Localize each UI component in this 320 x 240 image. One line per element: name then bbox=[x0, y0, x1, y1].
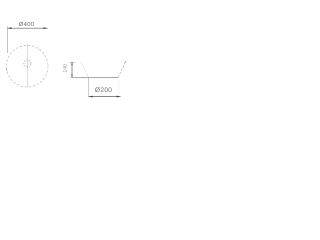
base dimension line bbox=[89, 96, 121, 98]
height dimension line bbox=[71, 62, 73, 77]
side-view right flare wall bbox=[118, 62, 126, 77]
height dimension top tick bbox=[70, 62, 75, 64]
top-view basin rim circle bbox=[6, 45, 48, 87]
right flare top serif bbox=[125, 61, 127, 62]
top-view drain circle bbox=[24, 60, 31, 67]
svg-text:Ø200: Ø200 bbox=[95, 87, 112, 94]
height dimension bottom arrow bbox=[71, 75, 73, 78]
svg-text:140: 140 bbox=[63, 64, 69, 72]
diameter dimension right arrow bbox=[44, 27, 48, 29]
svg-text:Ø400: Ø400 bbox=[19, 21, 35, 28]
base dimension left arrow bbox=[89, 96, 93, 98]
top-view circle left-edge dash bbox=[5, 68, 8, 72]
base dimension extension line (right, faint) bbox=[118, 80, 120, 95]
diameter dimension extension line (left) bbox=[7, 26, 9, 53]
height dimension top arrow bbox=[71, 62, 73, 65]
diameter dimension line bbox=[8, 27, 48, 29]
side-view left flare wall (faint) bbox=[81, 62, 89, 77]
top-view drain inner arc bbox=[26, 62, 29, 65]
top-view vertical centerline bbox=[26, 44, 28, 88]
diameter dimension left arrow bbox=[8, 27, 12, 29]
base dimension extension line (left) bbox=[88, 78, 90, 97]
side-view bottom line bbox=[71, 76, 119, 78]
base dimension right arrow bbox=[117, 96, 121, 98]
